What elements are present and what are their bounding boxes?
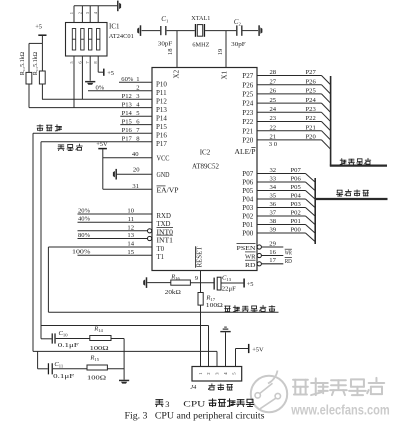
svg-text:P15: P15 — [122, 118, 133, 125]
svg-text:P17: P17 — [156, 140, 167, 148]
svg-text:80%: 80% — [78, 232, 91, 239]
svg-text:P07: P07 — [291, 167, 302, 174]
wire pin 15 (T1) — [78, 254, 153, 256]
svg-text:P12: P12 — [156, 98, 167, 106]
svg-text:30pF: 30pF — [158, 40, 173, 47]
wire X1 down to pin19 — [225, 31, 227, 68]
ground above J4 (pointing up) — [225, 332, 227, 366]
power +5 at IC1 pin8 — [103, 69, 105, 76]
data bus horizontal (thick) — [315, 198, 387, 200]
svg-text:P22: P22 — [306, 115, 316, 122]
svg-text:24: 24 — [270, 106, 277, 113]
inversion bubble pin 12 — [148, 229, 152, 233]
svg-text:T1: T1 — [157, 254, 165, 261]
svg-text:WR: WR — [245, 254, 256, 261]
power +5 at C13 — [243, 279, 245, 288]
wire pin 28 (P27) to bus — [257, 75, 322, 77]
IC U2 AT89C52 body — [152, 68, 257, 271]
svg-text:100%: 100% — [72, 249, 91, 256]
svg-text:16: 16 — [269, 249, 276, 256]
wire pin 14 (T0) — [48, 246, 152, 248]
svg-text:100Ω: 100Ω — [206, 302, 223, 309]
svg-text:P04: P04 — [242, 196, 253, 204]
svg-text:+5: +5 — [35, 24, 42, 31]
svg-text:P06: P06 — [242, 179, 253, 187]
svg-text:P27: P27 — [242, 72, 253, 80]
svg-text:100Ω: 100Ω — [87, 374, 106, 381]
wire IC1 pin7 to ground — [89, 56, 91, 81]
wire pin 17 (RD) — [262, 263, 284, 265]
svg-text:R₁₃5.1kΩ: R₁₃5.1kΩ — [33, 51, 39, 75]
ground at pin20 (sideways) — [115, 169, 117, 180]
wire crystal to X1 node — [205, 30, 236, 32]
svg-text:X1: X1 — [221, 70, 229, 79]
svg-text:12: 12 — [127, 224, 134, 231]
wire pin 38 (P01) to bus — [257, 224, 306, 226]
svg-text:P21: P21 — [242, 127, 253, 135]
svg-text:31: 31 — [132, 183, 139, 190]
svg-text:14: 14 — [127, 241, 134, 248]
svg-text:0.1μF: 0.1μF — [53, 373, 75, 380]
svg-text:0%: 0% — [96, 85, 105, 92]
inversion bubble pin 13 — [148, 236, 152, 240]
svg-text:GND: GND — [157, 172, 170, 179]
svg-text:28: 28 — [270, 69, 277, 76]
inversion bubble pin 17 — [257, 262, 261, 266]
wire pin 1 (P10) — [119, 81, 152, 83]
svg-text:J4: J4 — [190, 384, 197, 391]
svg-text:P05: P05 — [291, 184, 302, 191]
data bus vertical — [314, 178, 316, 244]
wire +5V to J4 — [235, 349, 237, 367]
svg-text:2: 2 — [136, 85, 139, 92]
wire IC1 pin6 SCL down to P12 line — [81, 56, 83, 99]
svg-text:P03: P03 — [291, 201, 302, 208]
wire R14 to ground vertical — [111, 338, 124, 340]
svg-text:1: 1 — [136, 76, 139, 83]
wire close-key horizontal to J4 — [41, 325, 209, 327]
wire pin 12 (INT0) — [78, 230, 148, 232]
address bus horizontal (thick) — [330, 164, 387, 166]
svg-text:36: 36 — [270, 201, 277, 208]
svg-text:33: 33 — [270, 176, 277, 183]
node 唘合键 label (close key) — [58, 144, 82, 151]
svg-text:P13: P13 — [156, 106, 167, 114]
wire pin 13 (INT1) — [78, 238, 148, 240]
svg-text:RD: RD — [245, 262, 256, 269]
wire P17 close-key vertical — [40, 142, 42, 339]
svg-text:39: 39 — [270, 227, 277, 234]
wire pin 36 (P03) to bus — [257, 207, 306, 209]
wire branch to C11 — [37, 351, 39, 368]
svg-text:21: 21 — [270, 134, 277, 141]
svg-text:18: 18 — [167, 48, 174, 55]
svg-text:P10: P10 — [156, 81, 167, 89]
svg-text:P03: P03 — [242, 204, 253, 212]
ground at R16 (sideways left) — [146, 277, 148, 288]
svg-text:P23: P23 — [306, 106, 317, 113]
wire pin31 EA/VP — [103, 188, 152, 190]
wire pin 35 (P04) to bus — [257, 198, 306, 200]
svg-text:2: 2 — [77, 12, 82, 14]
svg-text:22: 22 — [270, 124, 277, 131]
svg-text:37: 37 — [270, 210, 277, 217]
resistor R14 100 Ohm — [90, 336, 111, 341]
svg-text:17: 17 — [269, 257, 276, 264]
svg-text:EA/VP: EA/VP — [157, 187, 179, 194]
svg-text:P11: P11 — [156, 89, 167, 97]
svg-text:P01: P01 — [291, 218, 301, 225]
svg-text:P01: P01 — [242, 221, 253, 229]
svg-text:RD: RD — [285, 258, 292, 265]
svg-text:P00: P00 — [242, 230, 253, 238]
wire T0 down — [47, 247, 49, 312]
IC1 top pins 1-4 wires — [73, 6, 75, 23]
svg-text:P26: P26 — [242, 81, 253, 89]
wire +5 to pullup split — [41, 36, 43, 44]
svg-text:19: 19 — [217, 48, 224, 55]
svg-text:P26: P26 — [306, 78, 317, 85]
wire pin 5 (P14) — [120, 115, 152, 117]
wire pin 6 (P15) — [120, 124, 152, 126]
wire R13 to P12 line — [41, 84, 43, 99]
wire pin 29 (PSEN) — [262, 246, 284, 248]
svg-text:13: 13 — [127, 232, 134, 239]
wire C1 to ground — [142, 30, 161, 32]
watermark text dianzifashaoyou — [294, 379, 385, 396]
wire X2 down to pin18 — [176, 31, 178, 68]
svg-text:RXD: RXD — [157, 213, 171, 220]
watermark logo pads and traces — [255, 383, 280, 409]
svg-text:CPU: CPU — [183, 400, 205, 409]
svg-text:20%: 20% — [78, 207, 91, 214]
svg-text:+5: +5 — [107, 70, 114, 77]
wire pin20 GND — [117, 173, 152, 175]
wire R17 down to J4 — [200, 305, 202, 366]
caption line 1: 图3 CPU及外围电路 — [155, 400, 163, 407]
wire pin 16 (WR) — [262, 255, 284, 257]
svg-text:P02: P02 — [242, 213, 253, 221]
wire pin 21 (P20) to bus — [257, 139, 322, 141]
svg-text:P07: P07 — [242, 170, 253, 178]
resistor R15 100 Ohm — [87, 365, 107, 370]
wire R15 to ground vertical — [107, 368, 124, 370]
svg-text:P25: P25 — [242, 91, 253, 99]
svg-text:R₁₂5.1kΩ: R₁₂5.1kΩ — [20, 51, 26, 75]
svg-text:26: 26 — [270, 88, 277, 95]
svg-text:P06: P06 — [291, 176, 302, 183]
wire pin 3 (P12) — [42, 98, 152, 100]
power +5V at J4 — [248, 344, 250, 353]
wire R16 to reset node — [190, 282, 213, 284]
wire IC1 pin5 SDA down to P13 line — [73, 56, 75, 108]
inversion bubble pin 16 — [257, 253, 261, 257]
svg-text:23: 23 — [270, 115, 277, 122]
svg-text:P20: P20 — [242, 137, 253, 145]
svg-text:INT0: INT0 — [157, 230, 174, 237]
svg-text:P21: P21 — [306, 124, 316, 131]
wire IC1 ground rail — [74, 5, 117, 7]
wire IC1 pin8 VCC to +5 — [97, 56, 99, 72]
svg-text:25: 25 — [270, 97, 277, 104]
svg-text:P24: P24 — [306, 97, 317, 104]
svg-text:IC1: IC1 — [109, 22, 120, 30]
svg-text:IC2: IC2 — [200, 149, 211, 157]
wire branch to C10 — [41, 338, 52, 340]
wire pin 7 (P16) — [33, 132, 152, 134]
svg-text:20: 20 — [133, 167, 140, 174]
ground below IC1 pin7 — [85, 81, 95, 83]
svg-text:40%: 40% — [78, 216, 91, 223]
wire pin 10 (RXD) — [78, 213, 153, 215]
wire pin 26 (P25) to bus — [257, 93, 322, 95]
capacitor C1 30pF — [160, 26, 161, 35]
wire ground to R16 — [147, 282, 171, 284]
svg-text:+5V: +5V — [96, 141, 108, 148]
ground below R14/R15 — [119, 380, 129, 382]
wire torque signal input — [48, 311, 278, 313]
svg-text:29: 29 — [269, 240, 276, 247]
inversion bubble pin 29 — [257, 245, 261, 249]
wire X2 net — [167, 30, 195, 32]
wire P16 detect-key vertical — [32, 133, 34, 351]
svg-text:P02: P02 — [291, 210, 301, 217]
wire pin 34 (P05) to bus — [257, 190, 306, 192]
svg-text:RESET: RESET — [197, 246, 204, 268]
svg-text:P15: P15 — [156, 123, 167, 131]
wire C11 to R15 — [53, 368, 87, 370]
wire pin 33 (P06) to bus — [257, 181, 306, 183]
svg-text:WR: WR — [285, 250, 293, 257]
capacitor C13 22uF electrolytic — [214, 278, 215, 290]
svg-text:3 0: 3 0 — [269, 141, 278, 148]
node 检测键 label (detect key) — [37, 125, 61, 131]
svg-text:60%: 60% — [121, 76, 133, 83]
label data bus 数据总线 — [337, 190, 369, 196]
svg-text:22μF: 22μF — [222, 286, 236, 293]
watermark elecfans logo circle — [251, 371, 287, 413]
svg-text:11: 11 — [128, 216, 134, 223]
svg-text:P25: P25 — [306, 88, 317, 95]
resistor R17 100 Ohm — [198, 293, 203, 306]
wire C10 to R14 — [56, 338, 90, 340]
wire pin 37 (P02) to bus — [257, 215, 306, 217]
wire pin 39 (P00) to bus — [257, 232, 306, 234]
wire pin 32 (P07) to bus — [257, 173, 306, 175]
svg-text:P04: P04 — [291, 193, 302, 200]
svg-text:34: 34 — [270, 184, 277, 191]
svg-text:40: 40 — [132, 151, 139, 158]
wire pin 4 (P13) — [29, 107, 152, 109]
wire R12 to P13 line — [28, 84, 30, 108]
svg-text:P27: P27 — [306, 69, 317, 76]
wire pin40 VCC — [103, 157, 152, 159]
svg-text:AT24C01: AT24C01 — [109, 33, 134, 40]
svg-text:T0: T0 — [157, 246, 165, 253]
svg-text:P13: P13 — [122, 101, 133, 108]
label torque signal input 捃矩信号输入 — [225, 305, 275, 311]
capacitor C11 0.1uF — [48, 363, 49, 374]
label address bus 地址总线 — [340, 158, 371, 164]
svg-text:35: 35 — [270, 193, 277, 200]
ground at C2 (sideways right) — [258, 25, 260, 36]
resistor R12 5.1k (left pullup) — [28, 43, 30, 72]
wire pin 2 (P11) — [88, 90, 152, 92]
svg-text:P16: P16 — [122, 127, 133, 134]
svg-text:0.1μF: 0.1μF — [58, 342, 80, 349]
wire C2 to ground — [243, 30, 259, 32]
svg-text:30pF: 30pF — [231, 41, 246, 48]
address bus vertical — [330, 76, 332, 166]
svg-text:+5V: +5V — [252, 346, 264, 353]
svg-text:P22: P22 — [242, 118, 253, 126]
connector J4 body — [192, 367, 242, 382]
svg-text:VCC: VCC — [157, 156, 170, 163]
svg-text:32: 32 — [270, 167, 277, 174]
wire pin 8 (P17) — [41, 141, 152, 143]
crystal XTAL1 6MHz — [195, 24, 196, 37]
svg-text:3: 3 — [165, 400, 169, 409]
svg-text:6MHZ: 6MHZ — [192, 41, 209, 48]
wire C13 to +5 — [221, 282, 243, 284]
wire pin 27 (P26) to bus — [257, 84, 322, 86]
wire pin 11 (TXD) — [78, 221, 153, 223]
wire pin 25 (P24) to bus — [257, 102, 322, 104]
power +5V symbol at VCC — [98, 148, 107, 150]
svg-text:ALE/P: ALE/P — [235, 149, 256, 156]
capacitor C10 0.1uF — [52, 333, 53, 343]
svg-text:www.elecfans.com: www.elecfans.com — [290, 403, 389, 418]
svg-text:1: 1 — [69, 12, 74, 14]
resistor R13 5.1k (right pullup) — [41, 43, 43, 71]
svg-text:P16: P16 — [156, 132, 167, 140]
svg-text:X2: X2 — [173, 69, 181, 78]
wire pin 23 (P22) to bus — [257, 121, 322, 123]
svg-text:P14: P14 — [122, 110, 133, 117]
svg-text:P05: P05 — [242, 187, 253, 195]
svg-text:INT1: INT1 — [157, 237, 174, 244]
svg-text:Fig. 3 CPU and peripheral ci: Fig. 3 CPU and peripheral circuits — [125, 411, 265, 421]
svg-text:P17: P17 — [122, 136, 133, 143]
svg-text:P14: P14 — [156, 115, 167, 123]
svg-text:P20: P20 — [306, 134, 317, 141]
svg-text:+5: +5 — [247, 281, 254, 288]
ground at IC1 top (sideways right) — [117, 1, 119, 12]
svg-text:20kΩ: 20kΩ — [165, 289, 181, 296]
svg-text:100Ω: 100Ω — [90, 345, 109, 352]
svg-text:27: 27 — [270, 78, 277, 85]
svg-text:XTAL1: XTAL1 — [191, 15, 210, 22]
wire pin 24 (P23) to bus — [257, 111, 322, 113]
ground at C1 (sideways left) — [140, 25, 142, 36]
wire pin9 RESET down — [200, 271, 202, 293]
wire pin 22 (P21) to bus — [257, 130, 322, 132]
IC U1 AT24C01 (EEPROM) body — [66, 23, 108, 57]
svg-text:15: 15 — [127, 249, 134, 256]
svg-text:P24: P24 — [242, 100, 253, 108]
wire VCC +5V supply vertical — [102, 149, 104, 189]
svg-text:10: 10 — [127, 208, 134, 215]
svg-text:P00: P00 — [291, 227, 302, 234]
wire detect-key horizontal to J4 — [33, 350, 217, 352]
svg-text:38: 38 — [270, 218, 277, 225]
svg-text:P23: P23 — [242, 109, 253, 117]
capacitor C2 30pF — [236, 25, 237, 35]
svg-text:P12: P12 — [122, 93, 132, 100]
svg-text:PSEN: PSEN — [237, 245, 256, 252]
resistor R16 20kOhm — [171, 280, 191, 285]
IC1 internal elements — [72, 29, 75, 51]
J4 label 接按键 (keys) — [208, 384, 232, 391]
svg-text:AT89C52: AT89C52 — [192, 163, 219, 171]
